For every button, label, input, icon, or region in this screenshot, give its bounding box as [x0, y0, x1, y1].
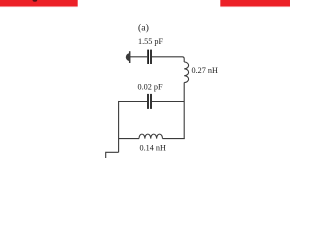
inductor L1 0.27 nH (vertical coil): [184, 62, 188, 83]
svg-text:1.55 pF: 1.55 pF: [138, 37, 163, 46]
svg-text:0.14 nH: 0.14 nH: [140, 143, 166, 152]
wire L1 down right side to bottom edge: [183, 83, 185, 139]
wire tank top edge right: [152, 101, 184, 103]
red header bar right: [220, 0, 290, 7]
wire tank bottom edge right: [163, 138, 185, 140]
capacitor C2 0.02 pF: [148, 94, 151, 109]
dark smudge on left bar (cropped glyph): [33, 0, 38, 2]
port P1 (input terminal): [126, 51, 130, 63]
wire stepped output lead: [106, 152, 119, 158]
inductor L2 0.14 nH (horizontal coil): [139, 134, 163, 138]
wire port to C1: [130, 56, 147, 58]
capacitor C1 1.55 pF: [148, 50, 151, 64]
wire tank bottom edge left: [119, 138, 139, 140]
wire tank top edge left: [119, 101, 148, 103]
svg-text:0.02 pF: 0.02 pF: [138, 82, 163, 91]
wire tank left edge: [118, 101, 120, 152]
red header bar left: [0, 0, 78, 7]
svg-text:(a): (a): [138, 23, 149, 34]
svg-text:0.27 nH: 0.27 nH: [192, 66, 218, 75]
wire C1 to top-right corner: [152, 57, 184, 62]
